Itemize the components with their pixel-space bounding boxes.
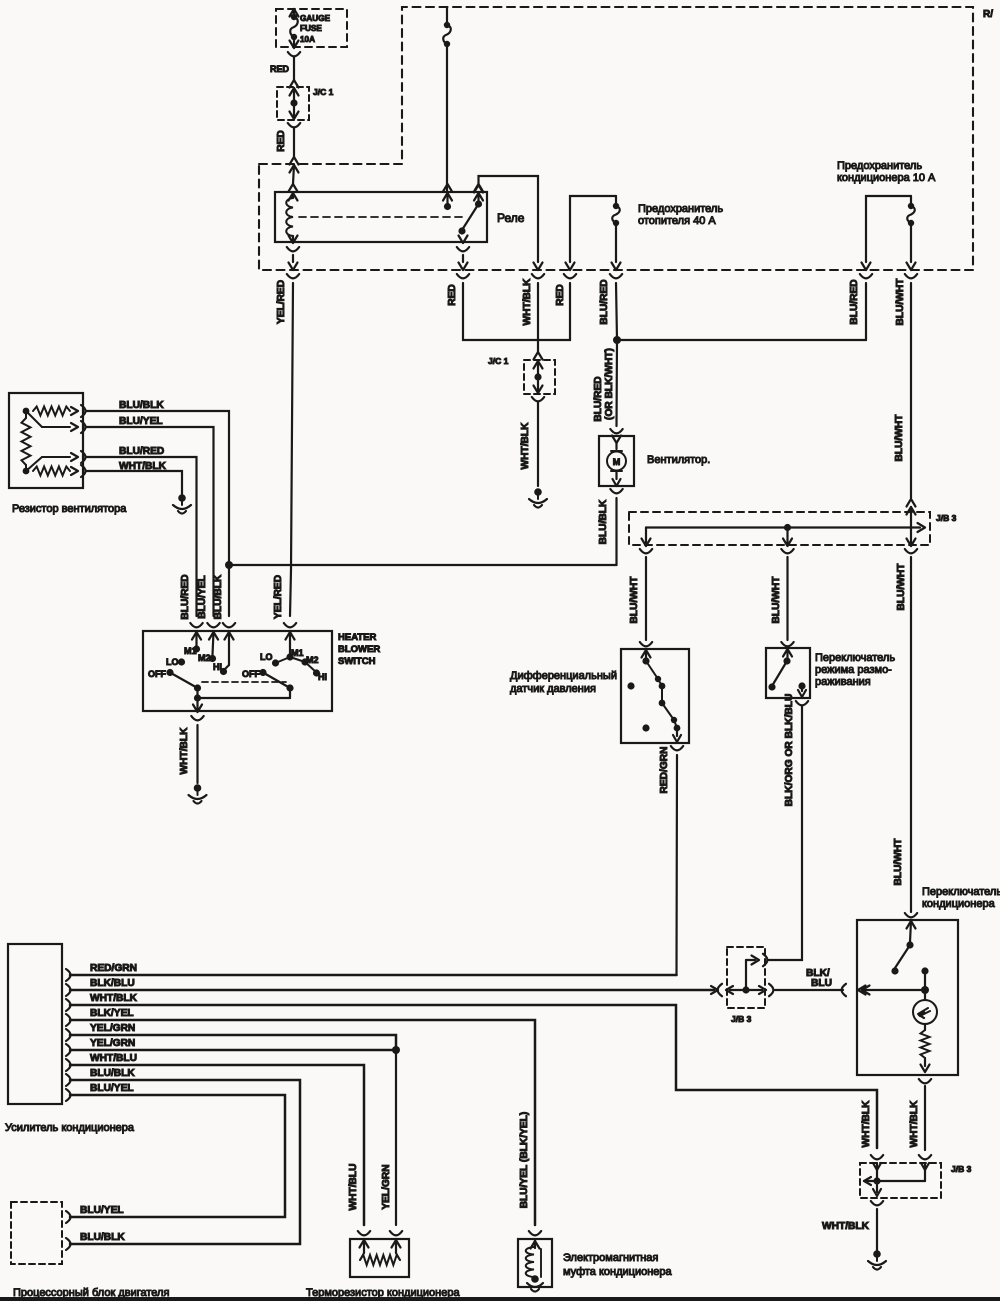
- wire BLU/WHT to pressure sensor: [645, 557, 647, 640]
- wire BLU/BLK amplifier to engine processor: [70, 1080, 300, 1244]
- svg-text:(OR BLK/WHT): (OR BLK/WHT): [604, 348, 615, 420]
- wire BLK/BLU amplifier to J/B 3: [70, 989, 714, 992]
- svg-text:Предохранитель: Предохранитель: [638, 203, 723, 215]
- A/C switch resistor: [924, 1024, 926, 1030]
- heater fuse 40A loop: [570, 196, 616, 262]
- heater blower switch box: [143, 631, 332, 711]
- wire YEL/GRN to thermoresistor: [395, 1050, 397, 1225]
- connector below gauge fuse box: [290, 41, 299, 49]
- svg-text:Дифференциальный: Дифференциальный: [510, 670, 617, 682]
- blower switch pin connectors: [190, 623, 202, 627]
- gauge fuse element: [293, 9, 295, 14]
- wire WHT/BLK relay to ground via J/C 1: [537, 283, 539, 352]
- svg-text:WHT/BLK: WHT/BLK: [520, 422, 531, 470]
- wire RED J/C 1 down to harness boundary: [293, 128, 295, 157]
- svg-text:M2: M2: [306, 655, 319, 665]
- svg-text:LO: LO: [260, 652, 273, 662]
- svg-text:Электромагнитная: Электромагнитная: [563, 1252, 658, 1264]
- amplifier pin connectors: [66, 969, 71, 981]
- svg-text:BLU/BLK: BLU/BLK: [80, 1232, 125, 1243]
- wire BLU/BLK resistor to blower switch: [86, 411, 229, 616]
- pressure sensor internals: [645, 650, 647, 658]
- svg-text:BLU/RED: BLU/RED: [593, 376, 604, 421]
- ground bottom right: [873, 1250, 881, 1258]
- node BLU/BLK join fan return: [225, 561, 233, 569]
- svg-text:BLK/ORG OR BLK/BLU: BLK/ORG OR BLK/BLU: [784, 694, 795, 807]
- svg-text:M1: M1: [184, 646, 197, 656]
- svg-text:BLU/BLK: BLU/BLK: [213, 574, 224, 619]
- svg-text:WHT/BLK: WHT/BLK: [179, 727, 190, 775]
- clutch coil: [534, 1240, 536, 1248]
- junction connector J/C 1 second (dashed box): [524, 360, 555, 394]
- svg-text:RED/GRN: RED/GRN: [90, 963, 137, 974]
- wire BLU/WHT rail to A/C switch: [910, 557, 912, 912]
- svg-text:WHT/BLK: WHT/BLK: [822, 1221, 870, 1232]
- A/C amplifier box (Usilitel konditsionera): [8, 944, 62, 1104]
- fan motor (Ventilyator): [610, 429, 622, 433]
- svg-text:M: M: [613, 457, 621, 467]
- blower switch output connector: [193, 705, 202, 713]
- ground for WHT/BLK relay circuit: [534, 488, 542, 496]
- svg-text:BLU/WHT: BLU/WHT: [893, 838, 904, 886]
- svg-text:BLU/BLK: BLU/BLK: [598, 499, 609, 544]
- A/C indicator lamp: [913, 1000, 937, 1024]
- node YEL/GRN junction: [392, 1046, 400, 1054]
- svg-text:Резистор вентилятора: Резистор вентилятора: [12, 503, 127, 515]
- wire WHT/BLK A/C switch down: [924, 1086, 926, 1150]
- svg-text:BLU/YEL: BLU/YEL: [90, 1083, 134, 1094]
- relay bottom pin exits: [289, 236, 298, 244]
- svg-text:WHT/BLK: WHT/BLK: [90, 993, 138, 1004]
- svg-text:Переключатель: Переключатель: [815, 652, 895, 664]
- svg-text:HI: HI: [318, 672, 327, 682]
- svg-text:BLU/RED: BLU/RED: [119, 446, 164, 457]
- A/C switch internals: [910, 921, 911, 942]
- relay pin connectors top: [289, 184, 298, 192]
- svg-text:BLU/RED: BLU/RED: [599, 279, 610, 324]
- svg-text:J/B 3: J/B 3: [951, 1164, 972, 1174]
- svg-text:BLU/RED: BLU/RED: [180, 574, 191, 619]
- wire WHT/BLK resistor to ground: [86, 471, 182, 494]
- differential pressure sensor box: [640, 642, 652, 646]
- relay coil: [292, 192, 294, 198]
- resistor pin connectors: [71, 407, 78, 415]
- svg-text:SWITCH: SWITCH: [338, 656, 376, 667]
- svg-text:M2: M2: [198, 653, 211, 663]
- junction connector J/C 1 (dashed box): [277, 87, 309, 120]
- wire BLU/RED resistor to blower switch: [86, 457, 197, 616]
- connector below J/C 1: [290, 112, 299, 120]
- wire from relay pin 3 up and right to WHT/BLK drop: [479, 176, 539, 262]
- svg-text:BLU/WHT: BLU/WHT: [771, 576, 782, 624]
- svg-text:RED: RED: [276, 130, 287, 152]
- svg-text:муфта кондиционера: муфта кондиционера: [563, 1266, 673, 1278]
- svg-text:WHT/BLK: WHT/BLK: [522, 278, 533, 326]
- svg-text:J/C 1: J/C 1: [488, 356, 509, 366]
- wire BLU/BLK fan return: [615, 498, 617, 565]
- svg-text:WHT/BLU: WHT/BLU: [348, 1164, 359, 1211]
- wire to relay pin 1: [293, 165, 294, 184]
- wire RED relay output to heater fuse leg: [463, 283, 570, 340]
- svg-text:YEL/GRN: YEL/GRN: [90, 1023, 135, 1034]
- wire RED gauge fuse to J/C 1: [293, 57, 295, 80]
- svg-text:J/C 1: J/C 1: [313, 87, 334, 97]
- junction block J/B 3 bottom right (dashed): [871, 1155, 883, 1159]
- svg-text:BLU/BLK: BLU/BLK: [119, 400, 164, 411]
- blower switch right blade: [263, 673, 290, 689]
- svg-text:BLU/WHT: BLU/WHT: [895, 278, 906, 326]
- J/B 3 bottom internals: [873, 1163, 881, 1170]
- engine processor box (dashed): [11, 1202, 62, 1264]
- A/C fuse 10A loop: [866, 196, 911, 262]
- J/B 3 exits: [642, 539, 651, 547]
- svg-text:Усилитель кондиционера: Усилитель кондиционера: [5, 1122, 135, 1134]
- ground for blower switch: [194, 784, 202, 792]
- svg-text:BLK/BLU: BLK/BLU: [90, 978, 135, 989]
- main feed fuse from top: [446, 7, 448, 22]
- wire BLK/BLU J/B 3 to A/C switch: [775, 989, 843, 991]
- wire WHT/BLK to ground: [876, 1209, 878, 1250]
- svg-text:режима размо-: режима размо-: [815, 664, 892, 676]
- svg-text:YEL/RED: YEL/RED: [273, 575, 284, 619]
- processor pin connectors: [66, 1211, 71, 1223]
- svg-text:HEATER: HEATER: [338, 632, 376, 643]
- blower switch left section: [195, 632, 197, 646]
- wire RED/GRN sensor output: [675, 755, 678, 975]
- wire BLK/YEL amplifier to A/C clutch: [70, 1020, 535, 1225]
- node inside J/C 1: [290, 99, 297, 106]
- svg-text:Предохранитель: Предохранитель: [837, 160, 922, 172]
- svg-text:R/: R/: [983, 9, 993, 20]
- wire RED/GRN amplifier to pressure sensor: [70, 974, 677, 977]
- defrost switch internals: [786, 649, 788, 658]
- svg-text:BLU/YEL: BLU/YEL: [80, 1205, 124, 1216]
- blower switch output bus: [198, 697, 291, 699]
- wire WHT/BLU amplifier to thermoresistor: [70, 1065, 364, 1225]
- A/C electromagnetic clutch box: [529, 1231, 541, 1235]
- wire BLU/YEL amplifier to engine processor: [70, 1095, 285, 1217]
- fan resistor box (Rezistor ventilyatora): [9, 393, 83, 488]
- svg-text:M1: M1: [291, 648, 304, 658]
- svg-text:YEL/RED: YEL/RED: [276, 280, 287, 324]
- relay box: [275, 192, 487, 242]
- relay switch contacts: [446, 192, 448, 203]
- svg-text:BLU: BLU: [811, 978, 832, 989]
- svg-text:J/B 3: J/B 3: [936, 513, 957, 523]
- svg-text:BLU/WHT: BLU/WHT: [894, 414, 905, 462]
- blower switch internal dashed: [202, 681, 286, 683]
- svg-text:WHT/BLU: WHT/BLU: [90, 1053, 137, 1064]
- wire fan return to blower switch riser: [229, 564, 617, 566]
- svg-text:кондиционера 10 А: кондиционера 10 А: [837, 172, 936, 184]
- svg-text:BLU/YEL (BLK/YEL): BLU/YEL (BLK/YEL): [519, 1112, 530, 1209]
- svg-text:Переключатель: Переключатель: [922, 886, 1000, 898]
- svg-text:BLU/WHT: BLU/WHT: [896, 563, 907, 611]
- fuse box: GAUGE FUSE 10A (dashed): [276, 9, 347, 47]
- svg-text:FUSE: FUSE: [300, 24, 322, 33]
- svg-text:YEL/GRN: YEL/GRN: [90, 1038, 135, 1049]
- thermoresistor box (Termorezistor konditsionera): [358, 1231, 370, 1235]
- junction block J/B 3 (dashed): [629, 512, 930, 545]
- svg-text:OFF: OFF: [148, 669, 166, 679]
- clutch ground: [531, 1275, 539, 1283]
- wire YEL/GRN amplifier first: [70, 1035, 396, 1050]
- wire YEL/GRN amplifier second: [70, 1049, 396, 1052]
- node BLU/RED junction: [613, 336, 621, 344]
- harness boundary crossings at y=270: [289, 263, 298, 271]
- svg-text:Реле: Реле: [497, 211, 525, 225]
- right rail BLU/WHT from A/C fuse: [910, 283, 912, 498]
- svg-text:датчик давления: датчик давления: [510, 683, 596, 695]
- wire BLK/ORG OR BLK/BLU defrost to J/B 3: [768, 706, 802, 960]
- defrost mode switch box: [781, 642, 793, 646]
- A/C switch box (Pereklyuchatel konditsionera): [905, 913, 917, 917]
- ground for fan resistor: [178, 494, 186, 502]
- scan edge bottom: [0, 1297, 1000, 1301]
- svg-text:YEL/GRN: YEL/GRN: [381, 1164, 392, 1209]
- blower switch left blade: [170, 673, 198, 689]
- wire WHT/BLK amplifier to bottom J/B 3: [70, 1005, 877, 1148]
- svg-text:WHT/BLK: WHT/BLK: [119, 461, 167, 472]
- svg-text:RED/GRN: RED/GRN: [659, 747, 670, 794]
- svg-text:WHT/BLK: WHT/BLK: [909, 1100, 920, 1148]
- svg-text:10A: 10A: [300, 35, 315, 44]
- svg-text:BLU/RED: BLU/RED: [849, 279, 860, 324]
- resistor network: [23, 408, 30, 415]
- blower switch right section: [289, 632, 291, 654]
- svg-text:Вентилятор.: Вентилятор.: [647, 454, 710, 466]
- wire BLU/YEL resistor to blower switch: [86, 427, 214, 616]
- svg-text:кондиционера: кондиционера: [922, 898, 996, 910]
- svg-text:J/B 3: J/B 3: [731, 1014, 752, 1024]
- wire BLU/RED (OR BLK/WHT) down to fan: [615, 340, 618, 426]
- svg-text:RED: RED: [270, 64, 290, 74]
- svg-text:BLU/YEL: BLU/YEL: [197, 575, 208, 619]
- wire WHT/BLK blower switch to ground: [196, 725, 198, 783]
- wire BLU/RED from heater fuse to fan and A/C fuse: [616, 283, 617, 340]
- svg-text:OFF: OFF: [242, 669, 260, 679]
- svg-text:LO: LO: [166, 657, 179, 667]
- svg-text:BLOWER: BLOWER: [338, 644, 380, 655]
- relay internal dashed link: [299, 216, 462, 218]
- svg-text:HI: HI: [213, 662, 222, 672]
- svg-text:отопителя 40 А: отопителя 40 А: [638, 215, 716, 227]
- rail entering J/B 3: [907, 499, 916, 507]
- wire BLU/RED junction to A/C fuse leg: [617, 339, 866, 341]
- dashed harness enclosure (fuse/relay block): [259, 7, 973, 270]
- wire YEL/RED relay to blower switch: [291, 283, 293, 570]
- svg-text:BLU/YEL: BLU/YEL: [119, 416, 163, 427]
- J/B 3 internal bus: [646, 526, 920, 528]
- svg-text:RED: RED: [447, 284, 458, 306]
- junction block J/B 3 small (dashed): [727, 947, 765, 1008]
- svg-text:раживания: раживания: [815, 676, 871, 688]
- svg-text:WHT/BLK: WHT/BLK: [861, 1100, 872, 1148]
- svg-text:BLU/WHT: BLU/WHT: [629, 576, 640, 624]
- svg-text:RED: RED: [555, 284, 566, 306]
- svg-text:BLK/YEL: BLK/YEL: [90, 1008, 134, 1019]
- J/B 3 small internals: [752, 956, 760, 965]
- svg-text:GAUGE: GAUGE: [300, 14, 331, 23]
- wire BLU/WHT to defrost switch: [786, 557, 788, 640]
- boundary crossing into dashed harness: [290, 157, 299, 165]
- svg-text:BLU/BLK: BLU/BLK: [90, 1068, 135, 1079]
